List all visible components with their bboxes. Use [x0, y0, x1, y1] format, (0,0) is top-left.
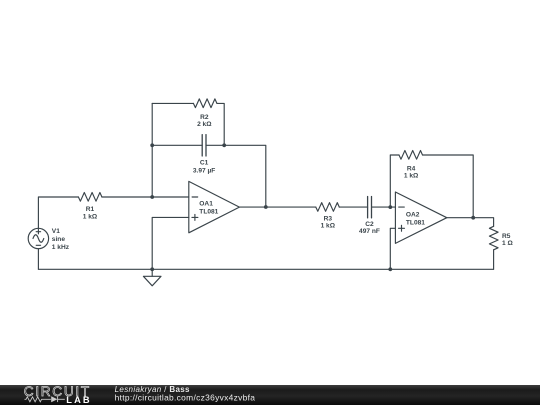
- label OA1 name: [199, 201, 218, 216]
- wire feedback left vertical: [151, 103, 153, 197]
- capacitor C2: [368, 197, 372, 218]
- svg-text:OA2: OA2: [406, 211, 420, 218]
- wire OA2 non-inverting input to bottom rail: [390, 228, 395, 269]
- voltage source V1: [28, 228, 48, 248]
- resistor R1: [78, 193, 102, 202]
- wire OA1 output to R3: [239, 206, 315, 208]
- footer title text: [115, 385, 256, 403]
- wire R5 bottom to rail: [493, 250, 495, 269]
- wire R2 right down to C1 row: [217, 103, 224, 145]
- svg-text:497 nF: 497 nF: [359, 228, 380, 235]
- wire V1 bottom to rail: [37, 249, 39, 270]
- svg-text:OA1: OA1: [199, 201, 213, 208]
- wire C1 right to output column: [206, 145, 266, 207]
- label R2 value: [197, 114, 212, 128]
- junction feedback / inverting input row: [150, 195, 154, 199]
- wire bottom rail: [38, 268, 493, 270]
- svg-text:V1: V1: [52, 228, 60, 235]
- svg-text:LAB: LAB: [66, 395, 91, 405]
- wire C1 row left: [152, 144, 202, 146]
- label OA2 name: [406, 211, 425, 226]
- svg-text:1 kΩ: 1 kΩ: [321, 223, 336, 230]
- CircuitLab logo: [24, 384, 92, 405]
- svg-text:1 Ω: 1 Ω: [502, 240, 513, 247]
- resistor R3: [316, 203, 340, 212]
- op-amp OA1: [189, 181, 240, 232]
- resistor R5: [489, 226, 498, 250]
- svg-text:R4: R4: [407, 166, 416, 173]
- svg-text:R5: R5: [502, 233, 511, 240]
- svg-text:R1: R1: [86, 206, 95, 213]
- junction ground tap: [150, 267, 154, 271]
- svg-text:sine: sine: [52, 236, 66, 243]
- label C2 value: [359, 221, 380, 235]
- svg-text:1 kHz: 1 kHz: [52, 244, 70, 251]
- svg-text:TL081: TL081: [406, 219, 425, 226]
- svg-text:C1: C1: [200, 159, 209, 166]
- svg-text:R3: R3: [324, 216, 333, 223]
- wire feedback node up to R4 row: [390, 155, 399, 207]
- junction feedback-left / C1 row: [150, 143, 154, 147]
- resistor R4: [399, 151, 423, 160]
- resistor R2: [193, 99, 217, 108]
- svg-text:TL081: TL081: [199, 209, 218, 216]
- label R1 value: [83, 206, 98, 220]
- wire R3 to C2: [339, 206, 367, 208]
- wire R4 right down to OA2 output: [423, 155, 474, 218]
- label V1 value: [52, 228, 70, 251]
- wire V1 top to R1 left: [38, 197, 78, 228]
- wire R2 row left: [152, 102, 193, 104]
- junction C1 right / R2 column: [222, 143, 226, 147]
- label R5 value: [502, 233, 513, 247]
- junction OA1 output / C1 column: [264, 205, 268, 209]
- svg-text:R2: R2: [200, 114, 209, 121]
- wire OA1 non-inverting input to ground rail: [152, 217, 189, 269]
- wire R1 to OA1 inverting input: [102, 196, 189, 198]
- wire C2 to OA2 inverting input: [372, 206, 396, 208]
- label C1 value: [193, 159, 216, 174]
- capacitor C1: [202, 135, 206, 156]
- junction OA2 output / R4 column: [471, 216, 475, 220]
- junction bottom rail / OA2 non-inverting: [388, 267, 392, 271]
- svg-text:2 kΩ: 2 kΩ: [197, 121, 212, 128]
- svg-text:1 kΩ: 1 kΩ: [83, 213, 98, 220]
- svg-text:http://circuitlab.com/cz36yvx4: http://circuitlab.com/cz36yvx4zvbfa: [115, 393, 256, 403]
- op-amp OA2: [395, 192, 446, 243]
- label R4 value: [404, 166, 419, 180]
- svg-text:C2: C2: [365, 221, 374, 228]
- junction OA2 feedback node: [388, 205, 392, 209]
- svg-text:1 kΩ: 1 kΩ: [404, 173, 419, 180]
- label R3 value: [321, 216, 336, 230]
- wire OA2 output to R5 top: [447, 218, 494, 227]
- svg-text:3.97 µF: 3.97 µF: [193, 168, 216, 175]
- ground: [143, 269, 161, 286]
